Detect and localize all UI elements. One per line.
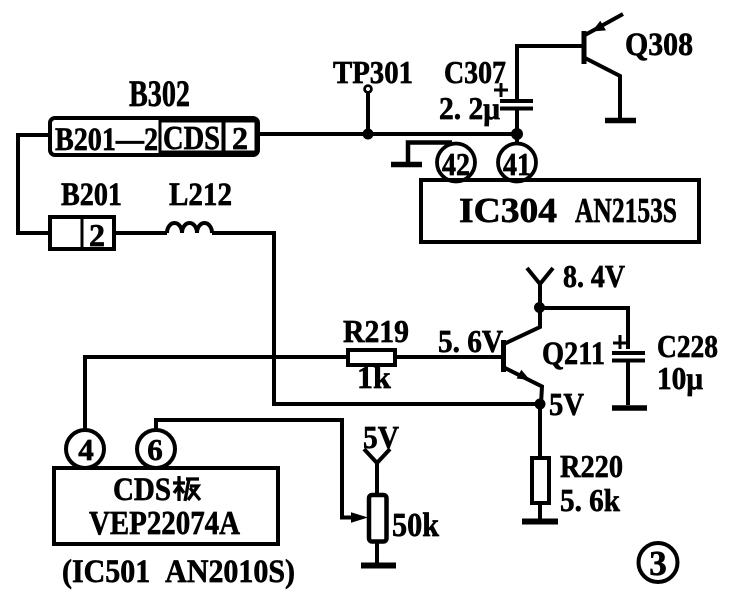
svg-text:5V: 5V (363, 419, 399, 455)
svg-text:AN2153S: AN2153S (575, 191, 677, 230)
wire R220 to ground (538, 503, 542, 519)
svg-text:R220: R220 (560, 448, 623, 484)
value 50k (392, 507, 439, 544)
pin 6 (137, 430, 175, 468)
svg-text:L212: L212 (169, 177, 232, 213)
value 1k (357, 359, 391, 395)
svg-text:42: 42 (442, 146, 470, 182)
label C307 (444, 54, 506, 90)
label 8.4V (563, 258, 625, 294)
svg-text:5. 6V: 5. 6V (438, 323, 503, 359)
svg-text:5V: 5V (549, 386, 584, 422)
label 5V emitter (549, 386, 584, 422)
value 2.2u (439, 90, 500, 126)
wire L212 down to 5V rail (212, 233, 538, 404)
potentiometer 50k (369, 495, 387, 542)
wire B201 to inductor (114, 231, 167, 235)
label 5V pot (363, 419, 399, 455)
caption IC501 AN2010S (62, 554, 295, 590)
svg-text:6: 6 (147, 432, 163, 467)
inductor L212 (167, 223, 212, 233)
capacitor C307 (494, 83, 533, 109)
connector B302 (50, 118, 258, 158)
value 10u (657, 360, 703, 396)
pin 41 (498, 144, 536, 183)
board CDS VEP22074A (54, 468, 278, 544)
ground R220 (522, 519, 558, 525)
svg-text:50k: 50k (392, 507, 439, 544)
node emitter 5V (535, 399, 546, 410)
svg-text:2: 2 (89, 217, 105, 253)
transistor Q308 (584, 14, 623, 118)
svg-text:C228: C228 (657, 328, 718, 364)
figure number 3 (639, 543, 678, 583)
value 5.6k (560, 482, 620, 518)
svg-text:Q211: Q211 (542, 336, 605, 372)
ground Q308 (605, 118, 636, 124)
svg-text:2. 2μ: 2. 2μ (439, 90, 500, 126)
wire node to pin 41 (515, 134, 519, 144)
svg-text:1k: 1k (357, 359, 391, 395)
capacitor C228 (612, 335, 645, 405)
svg-text:3: 3 (649, 544, 667, 583)
svg-text:41: 41 (503, 146, 531, 182)
svg-text:CDS: CDS (163, 120, 220, 157)
svg-text:2: 2 (232, 120, 248, 156)
svg-text:VEP22074A: VEP22074A (89, 505, 240, 542)
pin 4 (66, 430, 104, 468)
wire emitter to R220 (538, 404, 542, 458)
label C228 (657, 328, 718, 364)
test point TP301 (363, 86, 374, 140)
supply 8.4V arrow (527, 268, 553, 308)
svg-text:B201: B201 (61, 177, 122, 213)
label R219 (343, 313, 409, 349)
IC U IC304 (421, 180, 699, 242)
label B302 (129, 74, 190, 115)
svg-text:B302: B302 (129, 74, 190, 115)
pin 42 (437, 144, 475, 183)
label L212 (169, 177, 232, 213)
wire collector to C228 (540, 308, 628, 349)
label Q308 (625, 27, 693, 63)
label B201 (61, 177, 122, 213)
svg-text:(IC501 AN2010S): (IC501 AN2010S) (62, 554, 295, 590)
ground C228 (612, 405, 647, 411)
resistor R220 (532, 458, 549, 503)
svg-text:8. 4V: 8. 4V (563, 258, 625, 294)
wire left loop B302 to B201 (18, 135, 50, 233)
svg-text:B201—2: B201—2 (55, 122, 158, 158)
node C307/pin41 (511, 128, 523, 140)
svg-text:R219: R219 (343, 313, 409, 349)
svg-text:CDS: CDS (113, 472, 171, 508)
wire C307 top to Q308 base (517, 46, 584, 100)
svg-text:Q308: Q308 (625, 27, 693, 63)
main top wire (257, 132, 517, 136)
resistor R219 (348, 350, 395, 365)
label 5.6V (438, 323, 503, 359)
svg-text:IC304: IC304 (459, 191, 557, 230)
label R220 (560, 448, 623, 484)
svg-text:5. 6k: 5. 6k (560, 482, 620, 518)
wire pot to ground (375, 541, 379, 563)
svg-text:TP301: TP301 (333, 54, 413, 90)
svg-text:C307: C307 (444, 54, 506, 90)
node collector (534, 302, 545, 313)
wire base rail to R219 (85, 357, 348, 430)
supply 5V arrow pot (364, 449, 390, 494)
transistor Q211 (504, 308, 543, 404)
svg-text:10μ: 10μ (657, 360, 703, 396)
label Q211 (542, 336, 605, 372)
connector B201 (50, 217, 114, 253)
wire C307 bottom to node (515, 108, 519, 134)
svg-text:4: 4 (78, 432, 94, 467)
ground stub at pin 42 (391, 143, 452, 165)
wire R219 to Q211 base (395, 355, 504, 359)
ground pot (361, 563, 396, 569)
label TP301 (333, 54, 413, 90)
wire pin 6 to pot wiper (156, 420, 368, 523)
